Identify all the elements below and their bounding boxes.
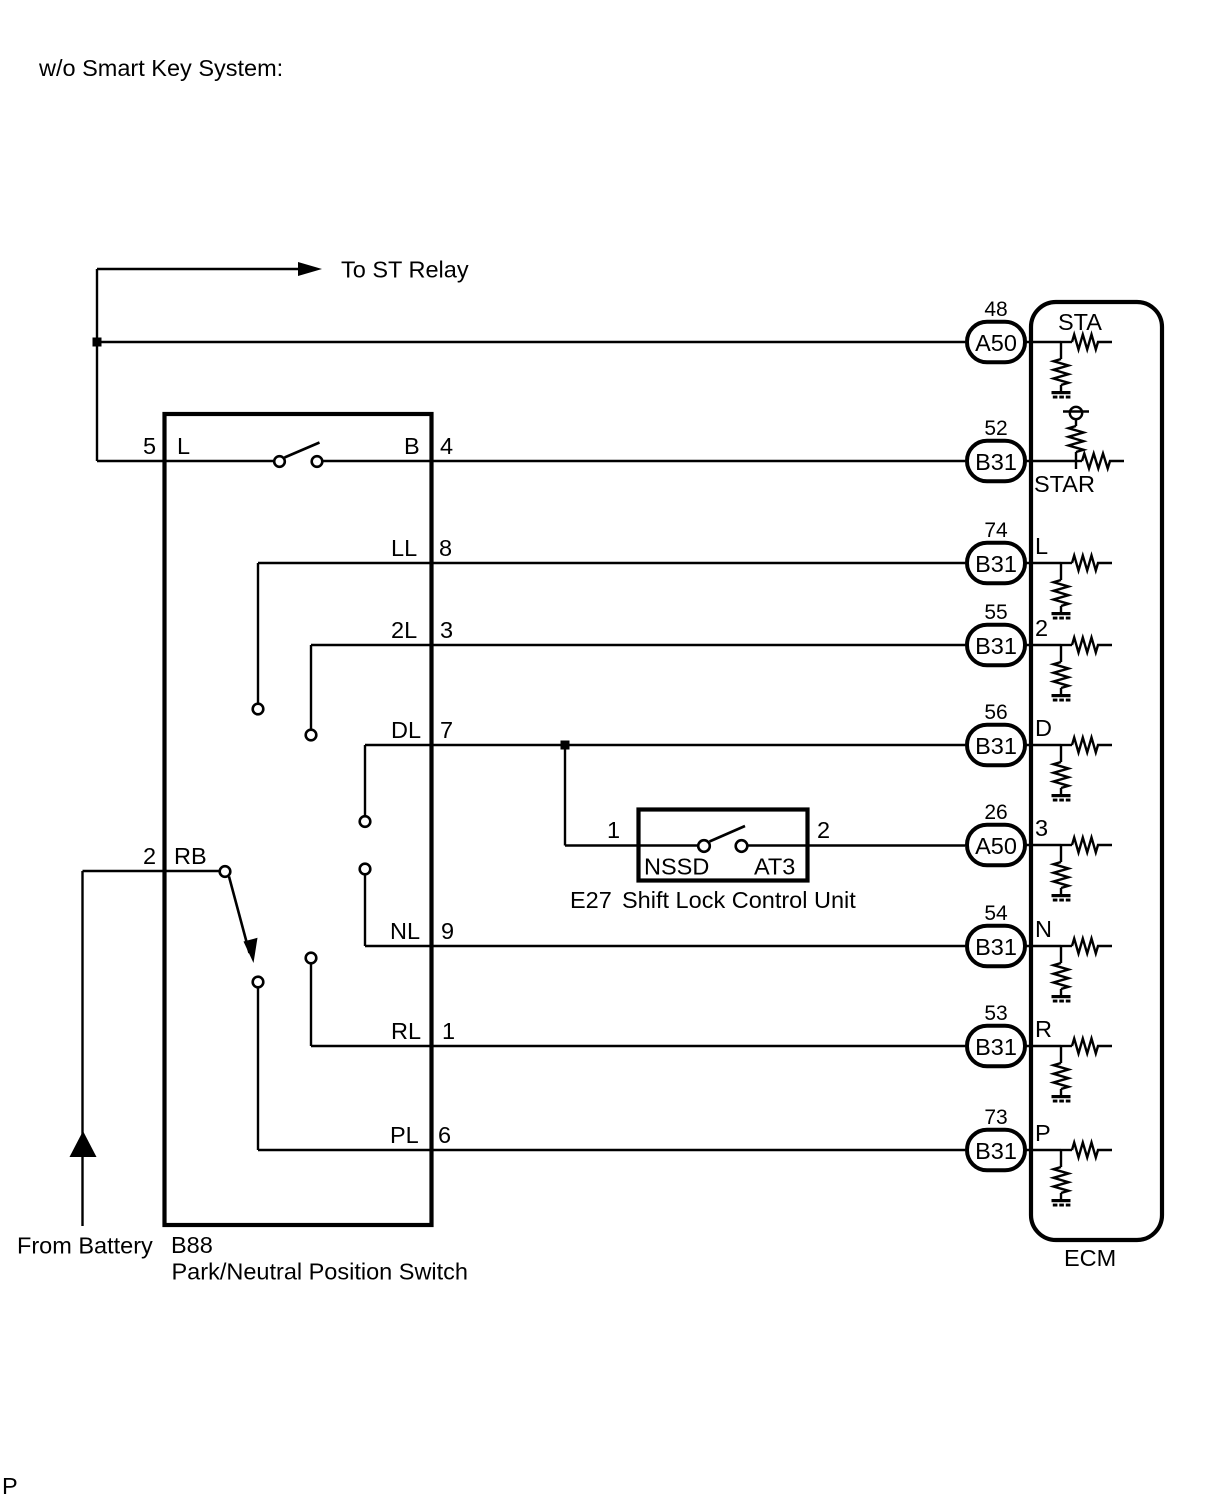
svg-text:8: 8 <box>439 535 452 561</box>
svg-text:3: 3 <box>1035 815 1048 841</box>
svg-text:P: P <box>1035 1120 1051 1146</box>
svg-text:73: 73 <box>984 1106 1007 1129</box>
svg-text:Park/Neutral Position Switch: Park/Neutral Position Switch <box>172 1259 468 1285</box>
svg-text:B: B <box>404 433 420 459</box>
svg-text:N: N <box>1035 916 1052 942</box>
svg-text:74: 74 <box>984 519 1008 542</box>
svg-text:RB: RB <box>174 843 207 869</box>
svg-text:B31: B31 <box>975 1034 1017 1060</box>
svg-text:B31: B31 <box>975 733 1017 759</box>
svg-text:54: 54 <box>984 902 1008 925</box>
svg-text:STA: STA <box>1058 309 1102 335</box>
svg-text:2: 2 <box>817 817 830 843</box>
svg-text:ECM: ECM <box>1064 1245 1116 1271</box>
svg-text:52: 52 <box>984 417 1007 440</box>
svg-text:3: 3 <box>440 617 453 643</box>
svg-text:B31: B31 <box>975 449 1017 475</box>
svg-text:6: 6 <box>438 1122 451 1148</box>
svg-text:B31: B31 <box>975 551 1017 577</box>
svg-text:7: 7 <box>440 717 453 743</box>
svg-text:AT3: AT3 <box>754 854 795 880</box>
svg-text:STAR: STAR <box>1034 471 1095 497</box>
svg-text:48: 48 <box>984 298 1007 321</box>
svg-text:2L: 2L <box>391 617 417 643</box>
svg-text:NSSD: NSSD <box>644 854 709 880</box>
svg-text:B88: B88 <box>171 1232 213 1258</box>
svg-text:4: 4 <box>440 433 453 459</box>
svg-text:w/o Smart Key System:: w/o Smart Key System: <box>38 55 283 81</box>
svg-text:53: 53 <box>984 1002 1007 1025</box>
svg-text:A50: A50 <box>975 330 1017 356</box>
svg-text:To ST Relay: To ST Relay <box>341 257 469 283</box>
svg-text:26: 26 <box>984 801 1007 824</box>
svg-text:2: 2 <box>143 843 156 869</box>
svg-text:5: 5 <box>143 433 156 459</box>
svg-text:L: L <box>177 433 190 459</box>
svg-text:1: 1 <box>607 817 620 843</box>
svg-text:E27: E27 <box>570 887 612 913</box>
svg-text:Shift Lock Control Unit: Shift Lock Control Unit <box>622 887 856 913</box>
svg-text:LL: LL <box>391 535 417 561</box>
svg-text:P: P <box>2 1473 18 1498</box>
svg-text:2: 2 <box>1035 615 1048 641</box>
svg-text:DL: DL <box>391 717 421 743</box>
svg-text:PL: PL <box>390 1122 419 1148</box>
svg-text:B31: B31 <box>975 1138 1017 1164</box>
svg-text:B31: B31 <box>975 934 1017 960</box>
svg-text:From Battery: From Battery <box>17 1233 153 1259</box>
svg-text:NL: NL <box>390 918 420 944</box>
svg-text:A50: A50 <box>975 833 1017 859</box>
svg-text:55: 55 <box>984 601 1007 624</box>
svg-text:RL: RL <box>391 1018 421 1044</box>
svg-text:L: L <box>1035 533 1048 559</box>
svg-text:D: D <box>1035 715 1052 741</box>
svg-text:56: 56 <box>984 701 1007 724</box>
svg-text:B31: B31 <box>975 633 1017 659</box>
svg-text:R: R <box>1035 1016 1052 1042</box>
svg-text:1: 1 <box>442 1018 455 1044</box>
svg-text:9: 9 <box>441 918 454 944</box>
